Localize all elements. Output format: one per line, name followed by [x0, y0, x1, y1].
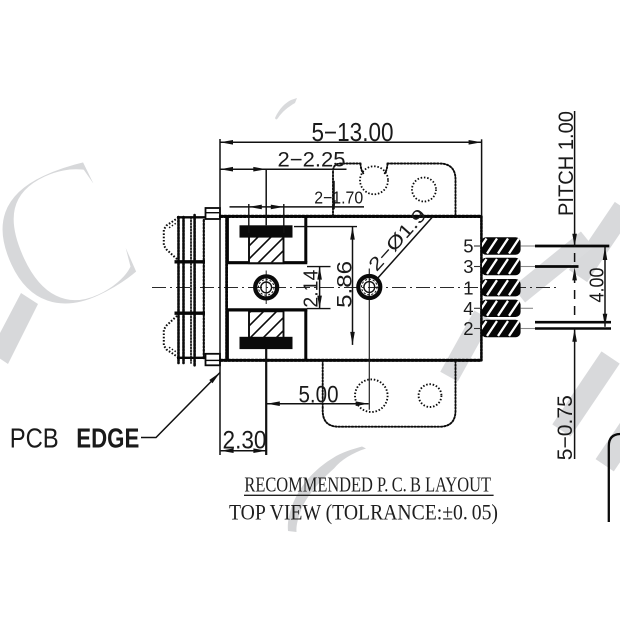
bottom flange outline: [323, 361, 456, 427]
svg-text:5.86: 5.86: [334, 261, 357, 308]
right plated hole: [358, 269, 380, 410]
dim 2.30: [221, 450, 267, 452]
pad column extension line: [265, 169, 267, 225]
profile tab bottom: [206, 354, 221, 366]
flange notch circle: [360, 166, 388, 194]
pad leader lines: [521, 246, 535, 329]
watermark band right 5: [596, 423, 620, 472]
svg-text:2.30: 2.30: [223, 427, 267, 455]
pad pin 3: [477, 258, 521, 275]
svg-text:RECOMMENDED P. C. B LAYOUT: RECOMMENDED P. C. B LAYOUT: [244, 472, 491, 496]
svg-text:EDGE: EDGE: [76, 423, 139, 454]
watermark band right 2: [513, 232, 594, 303]
connector profile dotted verticals: [179, 215, 204, 366]
svg-text:2−1.70: 2−1.70: [314, 187, 363, 207]
bottom pocket walls: [226, 310, 307, 360]
row3 extension line: [535, 265, 579, 268]
dim 2-1.70: [230, 206, 365, 208]
svg-text:PCB: PCB: [10, 423, 59, 454]
watermark bar bottom-left: [0, 293, 38, 364]
dim 5-13.00: [220, 139, 482, 215]
profile bump bottom: [164, 315, 179, 358]
bottom flange circle A: [355, 379, 388, 412]
bottom hatched pad: [227, 295, 300, 368]
notch reference line: [333, 181, 335, 210]
pad pin 1: [477, 279, 521, 296]
bottom pad bar: [240, 337, 293, 349]
watermark band behind pads: [440, 311, 491, 382]
pin 5 tick: [474, 245, 481, 247]
left plated hole: [255, 271, 277, 305]
PCB EDGE leader: [141, 373, 220, 438]
svg-text:4.00: 4.00: [586, 268, 609, 303]
watermark band right 4: [552, 351, 619, 436]
pin 2 tick: [474, 328, 481, 330]
svg-text:1: 1: [463, 277, 473, 298]
dim PITCH 1.00: [574, 111, 576, 247]
watermark swoosh top-center: [275, 98, 297, 120]
row2 extension line A: [535, 321, 611, 324]
svg-text:5−13.00: 5−13.00: [312, 119, 394, 147]
pad pin 5: [477, 237, 521, 254]
top pad bar: [240, 225, 293, 237]
row2 extension line B: [535, 327, 611, 330]
top pocket walls: [226, 217, 307, 263]
dim 5-0.75: [574, 329, 576, 459]
dim 5.00: [267, 403, 369, 405]
svg-text:PITCH 1.00: PITCH 1.00: [554, 111, 578, 216]
profile junction lines: [175, 260, 206, 263]
svg-text:5: 5: [463, 236, 473, 257]
svg-text:5−0.75: 5−0.75: [554, 395, 577, 460]
body outline dotted: [221, 216, 482, 360]
top hatched pad: [227, 215, 300, 288]
side view corner bottom-right: [609, 434, 620, 522]
svg-text:2.14: 2.14: [301, 270, 323, 308]
watermark C-arc bottom-center: [288, 447, 366, 533]
svg-text:4: 4: [463, 298, 473, 319]
dim 4.00: [604, 247, 606, 327]
dim 2-2.25: [220, 168, 347, 170]
PCB edge vertical line: [219, 139, 221, 455]
svg-text:3: 3: [463, 256, 473, 277]
dim 2.14: [307, 266, 331, 268]
2-1.70 extension lines: [248, 204, 250, 233]
pad pin 2: [477, 320, 521, 337]
pin 3 tick: [474, 266, 481, 268]
svg-text:2−2.25: 2−2.25: [278, 149, 346, 172]
watermark band right 1: [569, 202, 620, 282]
leader 2-dia1.9: [377, 216, 434, 279]
profile bump top: [164, 218, 179, 261]
pin 4 tick: [474, 307, 481, 309]
pad pin 4: [477, 300, 521, 317]
svg-text:2: 2: [463, 318, 473, 339]
svg-text:TOP VIEW (TOLRANCE:±0. 05): TOP VIEW (TOLRANCE:±0. 05): [229, 500, 498, 525]
flange hole: [412, 178, 436, 202]
bottom flange circle B: [419, 384, 442, 407]
dim 5.86: [294, 226, 357, 228]
svg-text:5.00: 5.00: [299, 381, 339, 408]
centerline horizontal: [152, 287, 560, 289]
row5 extension line: [535, 245, 609, 248]
profile tab top: [206, 208, 221, 219]
top flange outline: [333, 164, 456, 217]
